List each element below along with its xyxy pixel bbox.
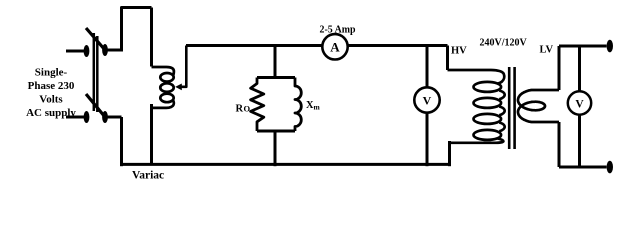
wire: bottom switch down to bottom rail <box>120 117 123 166</box>
wire: bottom supply stub <box>66 116 84 119</box>
wire: shunt bottom bar <box>257 130 295 133</box>
wire: HV top corner down <box>446 46 449 71</box>
wire: HV bottom corner <box>448 141 451 166</box>
resistor Ro <box>251 78 264 132</box>
wire: LV left riser top <box>558 46 561 90</box>
switch S1 link bar left <box>93 33 96 111</box>
wire: bottom contact to downlead <box>105 116 122 119</box>
wire: LV bottom lead <box>559 166 607 169</box>
label: Single-Phase 230 Volts AC supply <box>26 67 76 120</box>
transformer T2 core line right <box>513 67 516 149</box>
wire: riser from top switch up to bridge <box>122 8 152 51</box>
svg-text:Variac: Variac <box>132 170 164 182</box>
switch S1 bottom blade <box>86 94 105 117</box>
voltmeter V1 <box>414 87 439 112</box>
wire: top contact to riser <box>105 49 123 52</box>
wire: bridge down to variac top <box>150 8 153 67</box>
svg-text:m: m <box>314 103 321 112</box>
wire: shunt branch top feed <box>274 46 277 78</box>
svg-text:LV: LV <box>540 45 554 56</box>
node: top left contact <box>84 45 90 57</box>
svg-text:A: A <box>330 39 340 54</box>
wire: voltmeter V2 branch bottom <box>578 115 581 168</box>
label: Ro <box>236 104 251 115</box>
wire: top rail <box>186 44 448 47</box>
variac T1 winding <box>152 67 174 108</box>
wire: LV top lead <box>559 45 607 48</box>
switch S1 link bar right <box>96 36 99 112</box>
voltmeter V2 <box>568 91 591 114</box>
svg-text:Single-: Single- <box>35 67 68 79</box>
variac wiper arrowhead <box>175 84 182 91</box>
wire: shunt top bar <box>257 76 295 79</box>
wire: top supply stub <box>66 50 84 53</box>
wire: voltmeter V1 branch bottom <box>426 113 429 167</box>
label: Xm <box>306 100 321 112</box>
variac wiper arm <box>180 46 186 87</box>
svg-text:Volts: Volts <box>39 94 63 106</box>
ammeter A1 <box>322 34 347 59</box>
wire: bottom rail <box>120 163 450 166</box>
svg-text:240V/120V: 240V/120V <box>480 38 528 49</box>
transformer T2 core line left <box>508 67 511 149</box>
node: LV bottom terminal <box>607 161 613 174</box>
svg-text:HV: HV <box>451 46 467 57</box>
wire: LV left riser bottom <box>558 122 561 167</box>
wire: shunt branch bottom feed <box>274 131 277 166</box>
node: top right contact <box>102 44 108 56</box>
transformer T2 primary winding <box>448 70 505 143</box>
wire: voltmeter V1 branch top <box>426 46 429 88</box>
svg-text:O: O <box>244 104 251 114</box>
wire: variac bottom lead <box>150 104 153 164</box>
wire: voltmeter V2 branch top <box>578 46 581 92</box>
node: bottom right contact <box>102 111 108 123</box>
node: LV top terminal <box>607 40 613 53</box>
switch S1 top blade <box>86 28 105 50</box>
svg-text:V: V <box>423 94 432 108</box>
node: bottom left contact <box>84 111 90 123</box>
svg-text:Phase 230: Phase 230 <box>28 80 75 92</box>
svg-text:V: V <box>575 99 584 111</box>
svg-text:R: R <box>236 104 244 115</box>
inductor Xm <box>295 78 301 132</box>
transformer T2 secondary winding <box>518 90 559 122</box>
